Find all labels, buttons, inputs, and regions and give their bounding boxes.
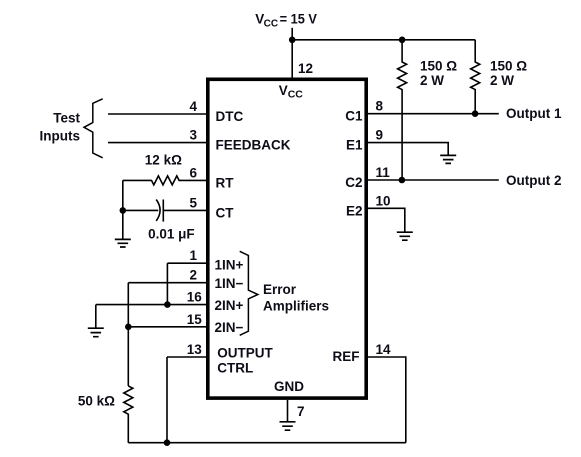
svg-text:E2: E2 [346, 203, 363, 218]
svg-text:CTRL: CTRL [217, 361, 253, 376]
svg-text:DTC: DTC [216, 109, 244, 124]
svg-text:2 W: 2 W [490, 73, 514, 88]
svg-text:4: 4 [189, 99, 197, 114]
node Output 2 [506, 173, 562, 188]
wire pin 9 E1 [367, 143, 448, 156]
pin number 14 [376, 342, 392, 357]
op-amp U1 (TL494 IC body) [208, 79, 366, 398]
svg-text:Output 2: Output 2 [506, 173, 562, 188]
svg-text:6: 6 [189, 165, 197, 180]
pin number 12 [298, 61, 313, 76]
wire pin 7 GND [287, 400, 289, 422]
svg-text:VCC: VCC [279, 83, 304, 101]
svg-text:10: 10 [376, 193, 391, 208]
pin number 4 [189, 99, 197, 114]
svg-text:11: 11 [376, 165, 391, 180]
pin label REF [333, 349, 360, 364]
pin label 2IN+ [215, 298, 244, 313]
wire top supply rail [292, 39, 475, 41]
pin number 5 [189, 195, 197, 210]
svg-text:5: 5 [189, 195, 197, 210]
wire pin 10 E2 [367, 208, 405, 232]
pin label GND [274, 379, 304, 394]
svg-text:1IN+: 1IN+ [215, 257, 244, 272]
value label 0.01 uF [148, 226, 195, 241]
ground E1 [440, 155, 456, 163]
node junction dot rail left [289, 37, 296, 44]
value label R2 [490, 58, 527, 88]
node Test Inputs label [40, 110, 81, 143]
value label 12 kohm [145, 153, 182, 168]
svg-text:= 15 V: = 15 V [280, 12, 317, 27]
pin label FEEDBACK [216, 138, 291, 153]
svg-text:16: 16 [187, 290, 203, 305]
pin number 8 [376, 99, 384, 114]
svg-text:8: 8 [376, 99, 384, 114]
wire Vcc stub [291, 28, 293, 40]
pin number 11 [376, 165, 391, 180]
node Error Amplifiers label [263, 282, 329, 314]
node VCC label [255, 12, 317, 30]
ground E2 [397, 232, 413, 240]
resistor 50 kohm [124, 386, 133, 443]
svg-text:Inputs: Inputs [40, 128, 81, 143]
wire 2IN+ ground drop [95, 305, 97, 329]
brace error amplifiers [240, 251, 258, 335]
wire pin1 to pin16 vertical [166, 263, 168, 304]
wire pin 14 REF down to rail [367, 357, 406, 443]
wire RT-CT vertical [122, 180, 124, 210]
pin number 13 [187, 342, 203, 357]
wire pin 5 CT left [123, 209, 159, 211]
svg-text:CC: CC [264, 19, 278, 30]
svg-text:RT: RT [216, 175, 235, 190]
wire pin 2 1IN- [128, 282, 206, 284]
wire pin 4 DTC [108, 113, 206, 115]
svg-text:1IN−: 1IN− [215, 276, 244, 291]
pin label C2 [345, 175, 362, 190]
svg-text:50 kΩ: 50 kΩ [78, 394, 115, 409]
node junction dot 2IN+ [164, 301, 171, 308]
capacitor CT 0.01 uF [156, 200, 160, 221]
node junction dot C2 [399, 177, 406, 184]
wire CT ground drop [122, 210, 124, 239]
pin label E2 [346, 203, 363, 218]
pin number 6 [189, 165, 197, 180]
svg-text:FEEDBACK: FEEDBACK [216, 138, 291, 153]
wire pin 5 CT right [163, 209, 206, 211]
svg-text:15: 15 [187, 312, 203, 327]
resistor R1 150 ohm [398, 40, 407, 180]
node junction dot output 1 [472, 110, 479, 117]
wire pin 15 2IN- [128, 326, 206, 328]
pin number 1 [189, 248, 197, 263]
pin label 2IN- [215, 320, 244, 335]
pin label RT [216, 175, 235, 190]
pin number 7 [297, 404, 305, 419]
value label R1 [420, 58, 457, 88]
svg-text:150 Ω: 150 Ω [490, 58, 527, 73]
ground pin 7 [280, 422, 296, 430]
node junction dot 2IN- [125, 324, 132, 331]
svg-text:2IN−: 2IN− [215, 320, 244, 335]
pin label E1 [346, 138, 363, 153]
wire pin13 down to bottom rail [166, 357, 168, 443]
ground CT [115, 239, 131, 247]
pin number 15 [187, 312, 203, 327]
brace test inputs [84, 99, 103, 158]
pin label 1IN+ [215, 257, 244, 272]
value label 50 kohm [78, 394, 115, 409]
svg-text:12 kΩ: 12 kΩ [145, 153, 182, 168]
wire pin 1 1IN+ [167, 262, 206, 264]
node junction dot CT [120, 207, 127, 214]
svg-text:OUTPUT: OUTPUT [217, 346, 273, 361]
pin label 1IN- [215, 276, 244, 291]
svg-text:CT: CT [216, 205, 235, 220]
wire pin 16 2IN+ [96, 304, 206, 306]
svg-text:2: 2 [189, 268, 197, 283]
svg-text:2 W: 2 W [420, 73, 444, 88]
pin number 16 [187, 290, 203, 305]
pin label CT [216, 205, 235, 220]
ground 2IN+ [88, 328, 104, 337]
pin number 3 [189, 128, 197, 143]
pin label VCC [279, 83, 304, 101]
svg-text:Amplifiers: Amplifiers [263, 299, 329, 314]
svg-text:2IN+: 2IN+ [215, 298, 244, 313]
wire pin 13 OUTPUT CTRL [167, 356, 206, 358]
wire pin 3 FEEDBACK [108, 142, 206, 144]
wire bottom rail [128, 442, 406, 444]
pin label C1 [345, 109, 363, 124]
node Output 1 [506, 106, 562, 121]
wire pin 12 [291, 40, 293, 79]
pin number 2 [189, 268, 197, 283]
pin number 9 [376, 128, 384, 143]
node junction dot rail R1 [399, 37, 406, 44]
svg-text:C1: C1 [345, 109, 363, 124]
svg-text:12: 12 [298, 61, 313, 76]
svg-text:14: 14 [376, 342, 392, 357]
svg-text:E1: E1 [346, 138, 363, 153]
pin label OUTPUT CTRL [217, 346, 273, 376]
svg-text:GND: GND [274, 379, 304, 394]
svg-text:C2: C2 [345, 175, 362, 190]
svg-text:1: 1 [189, 248, 197, 263]
svg-text:150 Ω: 150 Ω [420, 58, 457, 73]
resistor RT 12 kohm [123, 176, 206, 185]
wire pin 11 C2 to Output 2 [367, 179, 499, 181]
svg-text:3: 3 [189, 128, 197, 143]
wire pin 2 to pin 15 vertical and on to 50k [127, 283, 129, 386]
svg-text:Error: Error [263, 282, 297, 297]
svg-text:Test: Test [53, 110, 80, 125]
node junction dot bottom rail [164, 439, 171, 446]
svg-text:Output 1: Output 1 [506, 106, 562, 121]
svg-text:0.01 μF: 0.01 μF [148, 226, 195, 241]
svg-text:13: 13 [187, 342, 203, 357]
resistor R2 150 ohm [471, 40, 480, 114]
svg-text:9: 9 [376, 128, 384, 143]
pin label DTC [216, 109, 244, 124]
svg-text:REF: REF [333, 349, 360, 364]
pin number 10 [376, 193, 391, 208]
svg-text:7: 7 [297, 404, 305, 419]
wire pin 8 C1 to Output 1 [367, 113, 499, 115]
